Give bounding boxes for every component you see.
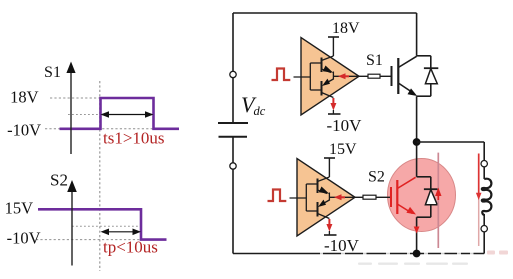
wire top rail drop to S1 collector: [416, 13, 418, 56]
driver U1 -10V supply arrow and bar: [332, 98, 334, 106]
guide line S1 -10V level: [45, 128, 154, 130]
current path annotation through D2 (up arrow): [435, 153, 441, 248]
guide line vertical at pulse start: [99, 81, 101, 271]
annotation tp<10us: [103, 238, 158, 257]
label 18V level: [10, 88, 39, 107]
gate driver U2 (low side): [268, 141, 360, 255]
svg-text:15V: 15V: [329, 141, 357, 158]
wire R2 to S2 gate: [376, 196, 391, 198]
gate resistor R1: [368, 74, 380, 78]
wire top rail: [233, 12, 417, 14]
wire terminal to inductor: [483, 167, 485, 179]
svg-text:18V: 18V: [332, 20, 360, 37]
wire S2 emitter to bottom rail: [416, 217, 418, 253]
inductor L1 (load): [482, 179, 492, 215]
driver U2 -10V supply arrow and bar: [328, 219, 330, 227]
svg-text:S2: S2: [50, 171, 68, 190]
guide line 18V level: [50, 97, 100, 99]
wire midpoint to load: [417, 141, 485, 143]
wire terminal to bottom rail: [483, 232, 485, 254]
svg-text:ts1>10us: ts1>10us: [103, 129, 165, 148]
label 15V level: [5, 199, 34, 218]
svg-text:-10V: -10V: [7, 121, 41, 140]
guide line S2 -10V level: [36, 239, 141, 241]
guide line S2 mid level: [72, 225, 141, 227]
svg-text:dc: dc: [254, 104, 266, 118]
driver U2 lower transistor emitter arrow: [318, 200, 326, 207]
wire inductor to terminal: [483, 214, 485, 226]
svg-text:S1: S1: [366, 52, 383, 69]
tp duration double arrow: [101, 229, 142, 236]
gate driver U1 (high side): [272, 20, 363, 135]
wire U1 output to gate resistor R1: [359, 75, 368, 77]
driver U2 +15V supply stub: [328, 158, 330, 177]
freewheel diode D1 loop: [417, 56, 431, 96]
watermark pink marks bottom right: [487, 251, 508, 255]
svg-text:18V: 18V: [10, 88, 39, 107]
driver U1 amplifier triangle: [301, 38, 359, 116]
svg-text:S1: S1: [44, 64, 61, 81]
highlight circle on IGBT S2: [388, 159, 456, 232]
svg-text:-10V: -10V: [327, 116, 363, 135]
ts1 duration double arrow: [101, 111, 154, 118]
capacitor Vdc (dc link): [218, 123, 248, 137]
wire bottom rail: [233, 253, 484, 255]
driver U1 internal totem-pole wiring: [294, 56, 360, 98]
driver U1 upper transistor emitter arrow: [323, 66, 333, 73]
guide line S1 mid level: [68, 114, 154, 116]
label -10V level (S1): [7, 121, 41, 140]
red current arrow on S2 emitter wire: [414, 227, 420, 234]
svg-text:tp<10us: tp<10us: [103, 238, 158, 257]
IGBT S2 (low side switch, highlighted): [355, 146, 438, 254]
label Vdc: [241, 92, 266, 118]
terminal load bottom: [481, 226, 487, 232]
driver U2 internal totem-pole wiring: [290, 177, 356, 219]
S2 gate voltage waveform: [38, 209, 167, 239]
S2 waveform axis: [67, 180, 77, 266]
terminal (-) of Vdc: [230, 163, 236, 169]
svg-text:15V: 15V: [5, 199, 34, 218]
label -10V level (S2): [7, 229, 41, 248]
driver U1 input pulse symbol: [272, 69, 291, 81]
label S2 (waveform): [50, 171, 68, 190]
watermark gray text row: [358, 263, 468, 265]
terminal (+) of Vdc: [230, 71, 236, 77]
wire left rail lower: [232, 169, 234, 253]
driver U2 input pulse symbol: [268, 190, 287, 202]
IGBT S1 (high side switch): [359, 52, 438, 139]
driver U2 amplifier triangle: [297, 159, 355, 237]
node bottom rail junction: [413, 250, 421, 258]
terminal load top: [481, 161, 487, 167]
IGBT S2 emitter arrow (red): [406, 207, 416, 215]
svg-text:-10V: -10V: [7, 229, 41, 248]
S1 gate voltage waveform: [60, 98, 180, 129]
wire S1 emitter to midpoint: [416, 96, 418, 139]
IGBT S2 symbol (red): [391, 177, 416, 214]
freewheel diode D2 loop: [417, 177, 431, 217]
svg-text:-10V: -10V: [324, 236, 360, 255]
label S1 (waveform): [44, 64, 61, 81]
driver U2 red output current arrow: [337, 196, 345, 198]
watermark blotches on bottom rail: [320, 252, 474, 255]
annotation ts1>10us: [103, 129, 165, 148]
wire R1 to S1 gate: [380, 75, 392, 77]
current path annotation through load (down arrow): [476, 154, 482, 247]
driver U2 upper transistor emitter arrow: [319, 187, 329, 194]
diode D2: [424, 189, 438, 205]
svg-text:S2: S2: [368, 169, 385, 186]
IGBT S1 emitter arrow: [408, 88, 418, 96]
diode D1: [424, 68, 438, 84]
wire capacitor to terminal: [232, 137, 234, 163]
IGBT S1 symbol: [392, 56, 417, 94]
wire midpoint to S2 collector: [416, 146, 418, 177]
wire left rail upper: [232, 13, 234, 71]
S1 waveform axis: [66, 62, 75, 155]
node midpoint junction: [413, 138, 421, 146]
wire Vdc to capacitor: [232, 78, 234, 123]
driver U1 +18V supply stub: [332, 37, 334, 56]
load branch: [417, 142, 492, 254]
driver U1 red output current arrow: [341, 75, 349, 77]
gate resistor R2: [363, 195, 376, 199]
driver U1 lower transistor emitter arrow: [322, 79, 330, 86]
wire U2 output to gate resistor R2: [355, 196, 363, 198]
